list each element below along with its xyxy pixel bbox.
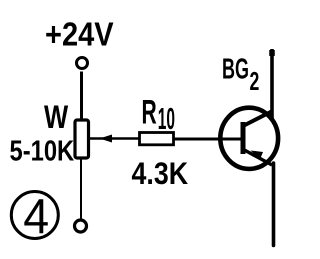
- svg-text:2: 2: [250, 67, 260, 96]
- transistor BG2: [220, 108, 278, 169]
- svg-text:W: W: [44, 100, 69, 135]
- resistor R10 body: [140, 133, 174, 145]
- label BG2: [222, 53, 259, 96]
- label W: [44, 100, 69, 135]
- figure number 4: [11, 190, 58, 244]
- svg-text:BG: BG: [222, 53, 249, 85]
- svg-text:10: 10: [158, 102, 175, 136]
- wire from +24V terminal to potentiometer W: [80, 72, 83, 121]
- svg-text:4: 4: [23, 190, 49, 244]
- wiper arrow of potentiometer W: [89, 135, 140, 143]
- value label 4.3K: [132, 157, 189, 191]
- label R10: [142, 92, 176, 137]
- svg-text:R: R: [142, 92, 157, 130]
- value label 5-10K: [10, 134, 75, 167]
- svg-text:4.3K: 4.3K: [132, 157, 189, 191]
- terminal node bottom: [75, 220, 87, 232]
- svg-text:+24V: +24V: [45, 16, 114, 53]
- potentiometer W body: [75, 120, 89, 158]
- wire from potentiometer W to bottom terminal: [80, 158, 82, 220]
- svg-text:5-10K: 5-10K: [10, 134, 75, 167]
- wire emitter of BG2: [272, 163, 276, 246]
- wire from resistor R10 to transistor BG2 base: [174, 138, 243, 141]
- power label +24V: [45, 16, 114, 53]
- wire collector of BG2: [270, 49, 274, 119]
- terminal node +24V: [77, 58, 88, 69]
